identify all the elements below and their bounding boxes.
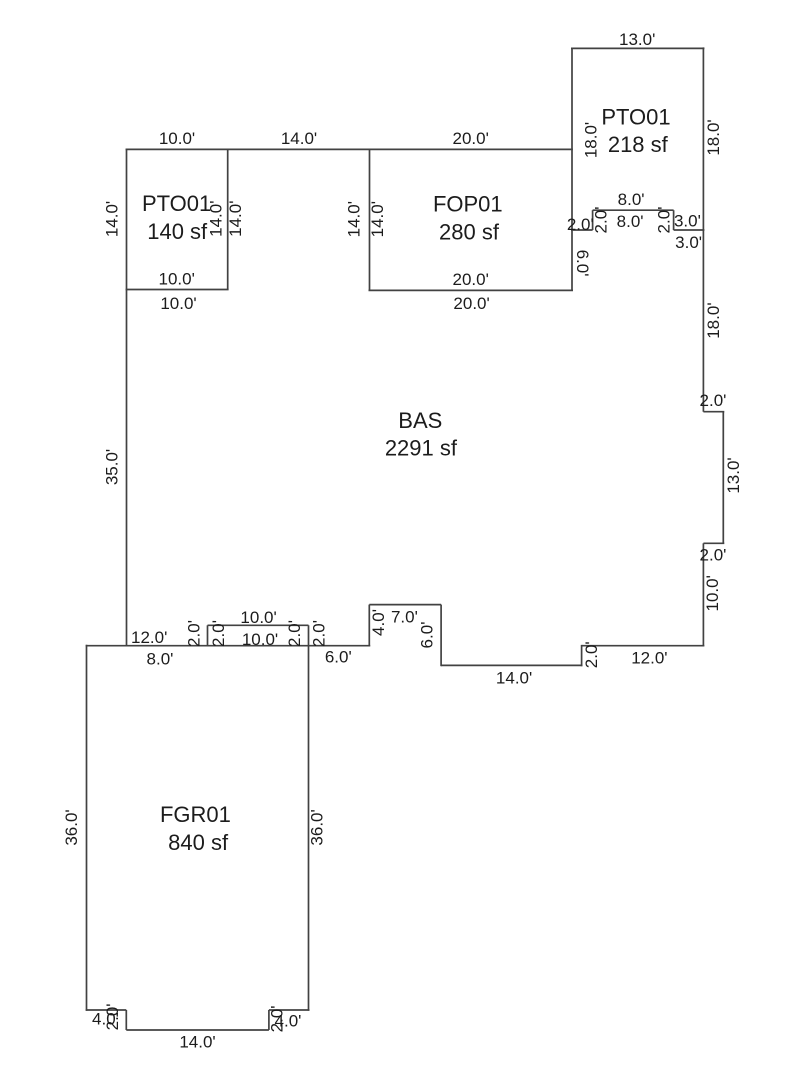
svg-text:14.0': 14.0' <box>102 201 121 237</box>
wall top 7ft seg <box>369 604 441 606</box>
svg-text:10.0': 10.0' <box>703 575 722 611</box>
wall notch left vert <box>592 210 594 230</box>
wall PTO01-218 top <box>571 47 704 49</box>
svg-text:14.0': 14.0' <box>368 201 387 237</box>
wall bottom 14ft seg <box>441 664 582 666</box>
svg-text:218 sf: 218 sf <box>608 132 669 157</box>
svg-text:8.0': 8.0' <box>618 190 645 209</box>
wall FOP01 right / PTO01-218 left <box>571 48 573 290</box>
wall FOP01 bottom <box>369 289 574 291</box>
svg-text:2.0': 2.0' <box>184 620 203 647</box>
svg-text:20.0': 20.0' <box>453 270 489 289</box>
svg-text:2.0': 2.0' <box>285 620 304 647</box>
svg-text:8.0': 8.0' <box>147 650 174 669</box>
wall FGR right <box>308 625 310 1011</box>
wall right upper <box>702 47 704 411</box>
svg-text:PTO01: PTO01 <box>601 104 670 129</box>
wall FOP01 left <box>369 149 371 290</box>
svg-text:14.0': 14.0' <box>226 201 245 237</box>
svg-text:2.0': 2.0' <box>655 207 674 234</box>
wall notch left seg <box>571 229 593 231</box>
svg-text:PTO01: PTO01 <box>142 191 211 216</box>
svg-text:BAS: BAS <box>398 408 442 433</box>
wall bottom 12ft seg <box>582 645 705 647</box>
wall step right lower <box>703 542 724 544</box>
svg-text:35.0': 35.0' <box>103 449 122 485</box>
svg-text:280 sf: 280 sf <box>439 219 500 244</box>
svg-text:10.0': 10.0' <box>159 129 195 148</box>
svg-text:3.0': 3.0' <box>675 233 702 252</box>
svg-text:10.0': 10.0' <box>240 608 276 627</box>
svg-text:14.0': 14.0' <box>344 201 363 237</box>
svg-text:2.0': 2.0' <box>103 1003 122 1030</box>
svg-text:10.0': 10.0' <box>159 270 195 289</box>
wall BAS left <box>126 149 128 647</box>
svg-text:840 sf: 840 sf <box>168 830 229 855</box>
wall notch top <box>593 209 674 211</box>
svg-text:2291 sf: 2291 sf <box>385 436 458 461</box>
svg-text:14.0': 14.0' <box>281 129 317 148</box>
wall FGR notch left vert <box>125 1010 127 1030</box>
svg-text:14.0': 14.0' <box>179 1033 215 1052</box>
svg-text:36.0': 36.0' <box>62 809 81 845</box>
wall FGR bottom left seg <box>86 1009 127 1011</box>
svg-text:18.0': 18.0' <box>581 122 600 158</box>
svg-text:18.0': 18.0' <box>704 119 723 155</box>
wall step v14 <box>207 625 209 646</box>
wall FGR left <box>86 645 88 1011</box>
svg-text:10.0': 10.0' <box>160 294 196 313</box>
svg-text:12.0': 12.0' <box>131 628 167 647</box>
svg-text:20.0': 20.0' <box>453 129 489 148</box>
svg-text:2.0': 2.0' <box>582 641 601 668</box>
wall notch 10ft seg <box>208 624 309 626</box>
wall PTO01-140 bottom <box>126 289 229 291</box>
svg-text:2.0': 2.0' <box>209 620 228 647</box>
svg-text:3.0': 3.0' <box>674 212 701 231</box>
svg-text:13.0': 13.0' <box>724 457 743 493</box>
wall long bottom seg FGR top <box>86 645 371 647</box>
svg-text:2.0': 2.0' <box>268 1005 287 1032</box>
svg-text:2.0': 2.0' <box>700 545 727 564</box>
svg-text:10.0': 10.0' <box>242 630 278 649</box>
svg-text:36.0': 36.0' <box>308 809 327 845</box>
svg-text:14.0': 14.0' <box>496 669 532 688</box>
svg-text:FOP01: FOP01 <box>433 192 503 217</box>
svg-text:12.0': 12.0' <box>631 648 667 667</box>
wall FGR bottom right seg <box>269 1009 310 1011</box>
wall PTO01-140 right <box>227 149 229 289</box>
wall right lower <box>702 543 704 646</box>
svg-text:7.0': 7.0' <box>391 607 418 626</box>
wall FGR notch right vert <box>268 1010 270 1030</box>
wall step v11 <box>440 605 442 667</box>
svg-text:2.0': 2.0' <box>700 391 727 410</box>
wall top line BAS <box>126 148 573 150</box>
svg-text:2.0': 2.0' <box>567 215 594 234</box>
svg-text:18.0': 18.0' <box>704 302 723 338</box>
svg-text:2.0': 2.0' <box>309 620 328 647</box>
wall right bump <box>722 412 724 544</box>
svg-text:8.0': 8.0' <box>617 212 644 231</box>
wall notch right vert <box>673 210 675 230</box>
svg-text:6.0': 6.0' <box>325 647 352 666</box>
svg-text:6.0': 6.0' <box>418 622 437 649</box>
wall FGR bottom 14ft <box>126 1029 269 1031</box>
svg-text:2.0': 2.0' <box>592 207 611 234</box>
svg-text:4.0': 4.0' <box>369 609 388 636</box>
wall step v12 <box>368 605 370 647</box>
svg-text:140 sf: 140 sf <box>147 219 208 244</box>
svg-text:13.0': 13.0' <box>619 30 655 49</box>
svg-text:6.0': 6.0' <box>573 250 592 277</box>
wall step right upper <box>703 411 724 413</box>
svg-text:20.0': 20.0' <box>453 294 489 313</box>
wall notch right seg <box>674 229 705 231</box>
wall step v10 <box>581 645 583 666</box>
svg-text:FGR01: FGR01 <box>160 802 231 827</box>
